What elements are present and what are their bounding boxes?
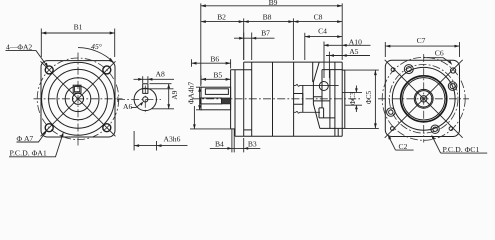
pin hole top-left — [391, 68, 395, 72]
svg-text:P.C.D. ΦA1: P.C.D. ΦA1 — [10, 149, 47, 158]
rear spigot — [342, 70, 345, 128]
small internal steps — [313, 97, 330, 101]
front boss outline — [230, 70, 232, 129]
svg-text:C6: C6 — [435, 48, 444, 57]
svg-text:B4: B4 — [215, 140, 224, 149]
bore circle inner — [416, 91, 432, 107]
svg-text:A5: A5 — [349, 47, 358, 56]
bolt hole top-right — [103, 66, 111, 74]
key on shaft (side walls and top) — [143, 84, 148, 94]
upper cut line with break squiggle — [294, 84, 339, 86]
detail horizontal center line — [117, 98, 161, 100]
middle view center line — [192, 98, 360, 100]
svg-text:C4: C4 — [318, 26, 327, 35]
dimension B1 extension lines — [41, 29, 114, 58]
dimension C4 extension line — [304, 33, 306, 60]
svg-text:A3h6: A3h6 — [164, 135, 181, 144]
dimension B1 line — [41, 32, 114, 34]
dimension B9 extension lines — [201, 3, 342, 86]
spigot circle (bold) — [401, 76, 447, 122]
key end hatch block — [222, 98, 231, 104]
dimension B4/B3 extension lines — [232, 129, 244, 153]
gearbox body outline — [235, 62, 342, 136]
svg-text:B9: B9 — [269, 0, 278, 7]
dimension PhiC5 line — [374, 70, 376, 128]
svg-text:A6: A6 — [123, 102, 132, 111]
dimension B5 line — [201, 78, 231, 80]
boss bottom line with extension — [231, 128, 235, 130]
right flange square outline — [385, 60, 459, 136]
dimension C4 line — [305, 36, 342, 38]
outer pilot circle — [42, 62, 115, 135]
svg-text:B3: B3 — [248, 140, 257, 149]
svg-text:4—ΦA2: 4—ΦA2 — [6, 42, 32, 51]
coupling cavity vertical — [302, 85, 304, 112]
bottom rear step — [320, 128, 342, 136]
body internal wall 1 — [251, 62, 253, 136]
45 degree angle arc with arrow — [78, 48, 114, 63]
dimension B9 line — [201, 5, 342, 7]
output shaft outline — [201, 87, 231, 110]
dimension B7 line with outside arrows — [234, 37, 275, 39]
svg-text:ΦC5: ΦC5 — [365, 90, 373, 104]
intermediate circle — [57, 78, 99, 120]
lower cut line with break squiggle — [294, 111, 320, 113]
right view diagonal center line TR-BL — [385, 60, 463, 138]
dimension B8 line — [244, 21, 294, 23]
center hole circle — [421, 96, 427, 102]
rear recess verticals — [322, 70, 330, 129]
motor bolt hole circle in section — [319, 82, 328, 91]
dimension A9 extension lines — [141, 84, 174, 109]
boss circle — [49, 69, 108, 128]
svg-text:C2: C2 — [399, 142, 408, 151]
pin hole pitch circle (dash-dot) — [382, 57, 465, 140]
body internal wall 3 — [293, 62, 295, 136]
right view vertical center line — [423, 54, 425, 143]
svg-text:Φ A7: Φ A7 — [17, 134, 34, 143]
right view horizontal center line — [378, 98, 469, 100]
dimension C8 line — [293, 21, 342, 23]
pin hole bottom-right — [449, 127, 453, 131]
left view vertical center line — [77, 53, 79, 146]
detail center bore circle — [143, 97, 148, 102]
dimension B7 extension lines — [244, 33, 252, 61]
dimension A8 line with outside arrows — [134, 78, 175, 80]
left view diagonal center line TL-BR — [41, 61, 116, 136]
body internal wall 2 — [272, 62, 274, 136]
svg-text:C8: C8 — [314, 13, 323, 22]
svg-text:B2: B2 — [217, 13, 226, 22]
motor bolt hole right — [448, 82, 457, 91]
dimension A9 line — [168, 84, 170, 109]
hub circle — [65, 86, 91, 112]
svg-text:ΦC3: ΦC3 — [349, 92, 357, 106]
dimension A3h6 extension lines — [134, 131, 156, 151]
svg-text:B5: B5 — [213, 71, 222, 80]
dimension A10 line — [324, 44, 371, 46]
left flange square outline — [41, 61, 115, 137]
dimension PhiC5 extension lines — [345, 70, 379, 128]
spigot inner circle — [403, 78, 445, 120]
left view horizontal center line — [34, 98, 123, 100]
dimension B2 line — [201, 21, 244, 23]
bolt hole bottom-right — [103, 124, 111, 132]
svg-text:A10: A10 — [349, 37, 362, 46]
keyway square on shaft — [73, 85, 81, 93]
key seat line — [143, 92, 148, 94]
P.C.D. motor bolt circle (dash-dot) — [389, 65, 458, 134]
svg-text:ΦA4h7: ΦA4h7 — [187, 82, 196, 105]
bore circle outer — [414, 89, 433, 108]
left view diagonal center line TR-BL — [41, 61, 116, 136]
dimension A5 extension line — [328, 52, 330, 78]
dimension C7 line — [385, 45, 459, 47]
dimension A3h6 line — [134, 145, 187, 147]
dimension B5 extension line — [200, 76, 202, 85]
right view diagonal center line TL-BR — [385, 60, 463, 138]
dimension A5 line — [326, 55, 370, 57]
rear recess top line — [322, 69, 342, 71]
dimension B6 extension lines — [192, 59, 231, 68]
boss diameter arrow — [193, 106, 195, 129]
svg-text:B7: B7 — [261, 28, 270, 37]
boss inner face line — [234, 70, 236, 137]
svg-text:A9: A9 — [170, 90, 179, 99]
dimension A8 extension lines — [143, 76, 148, 83]
svg-text:B6: B6 — [210, 55, 219, 64]
dimension PhiA4h7 line with arrows — [196, 87, 202, 110]
svg-text:P.C.D. ΦC1: P.C.D. ΦC1 — [443, 145, 480, 154]
boss top step line — [231, 69, 252, 71]
motor bolt hole upper-left — [404, 65, 413, 74]
dimension B2/B8/C8 shared extension lines — [244, 18, 294, 60]
coupling cavity box — [294, 94, 303, 105]
pin hole top-right — [451, 68, 456, 73]
bolt hole top-left — [45, 66, 53, 74]
svg-text:B8: B8 — [263, 13, 272, 22]
outer circle — [392, 67, 455, 130]
dimension B4/B3 line — [210, 147, 260, 149]
bolt hole bottom-left — [45, 124, 53, 132]
dimension PhiC3 line — [355, 86, 357, 113]
shaft key (bottom, with section end) — [200, 98, 221, 104]
motor flange plate front face — [334, 62, 336, 136]
svg-text:C7: C7 — [417, 36, 426, 45]
svg-text:45°: 45° — [91, 42, 102, 51]
P.C.D. bolt circle (dash-dot) — [37, 58, 119, 140]
dimension C7 extension lines — [385, 42, 459, 57]
svg-text:B1: B1 — [74, 22, 83, 31]
section break zigzag line — [313, 62, 320, 128]
lower bolt hole box — [319, 108, 335, 118]
motor bolt hole lower-left — [387, 108, 395, 116]
shaft circle — [72, 93, 83, 104]
dimension A10 extension line — [323, 42, 325, 79]
detail shaft circle — [134, 88, 156, 110]
pin hole bottom-left — [391, 127, 395, 131]
svg-text:A8: A8 — [156, 70, 165, 79]
dimension B6 line — [192, 62, 231, 64]
motor bolt hole bottom — [431, 125, 439, 133]
dimension PhiC3 extension lines — [342, 92, 362, 105]
detail vertical center line — [144, 86, 146, 115]
body bottom front step line — [244, 129, 252, 131]
shaft keyway slot (top) — [205, 89, 228, 95]
